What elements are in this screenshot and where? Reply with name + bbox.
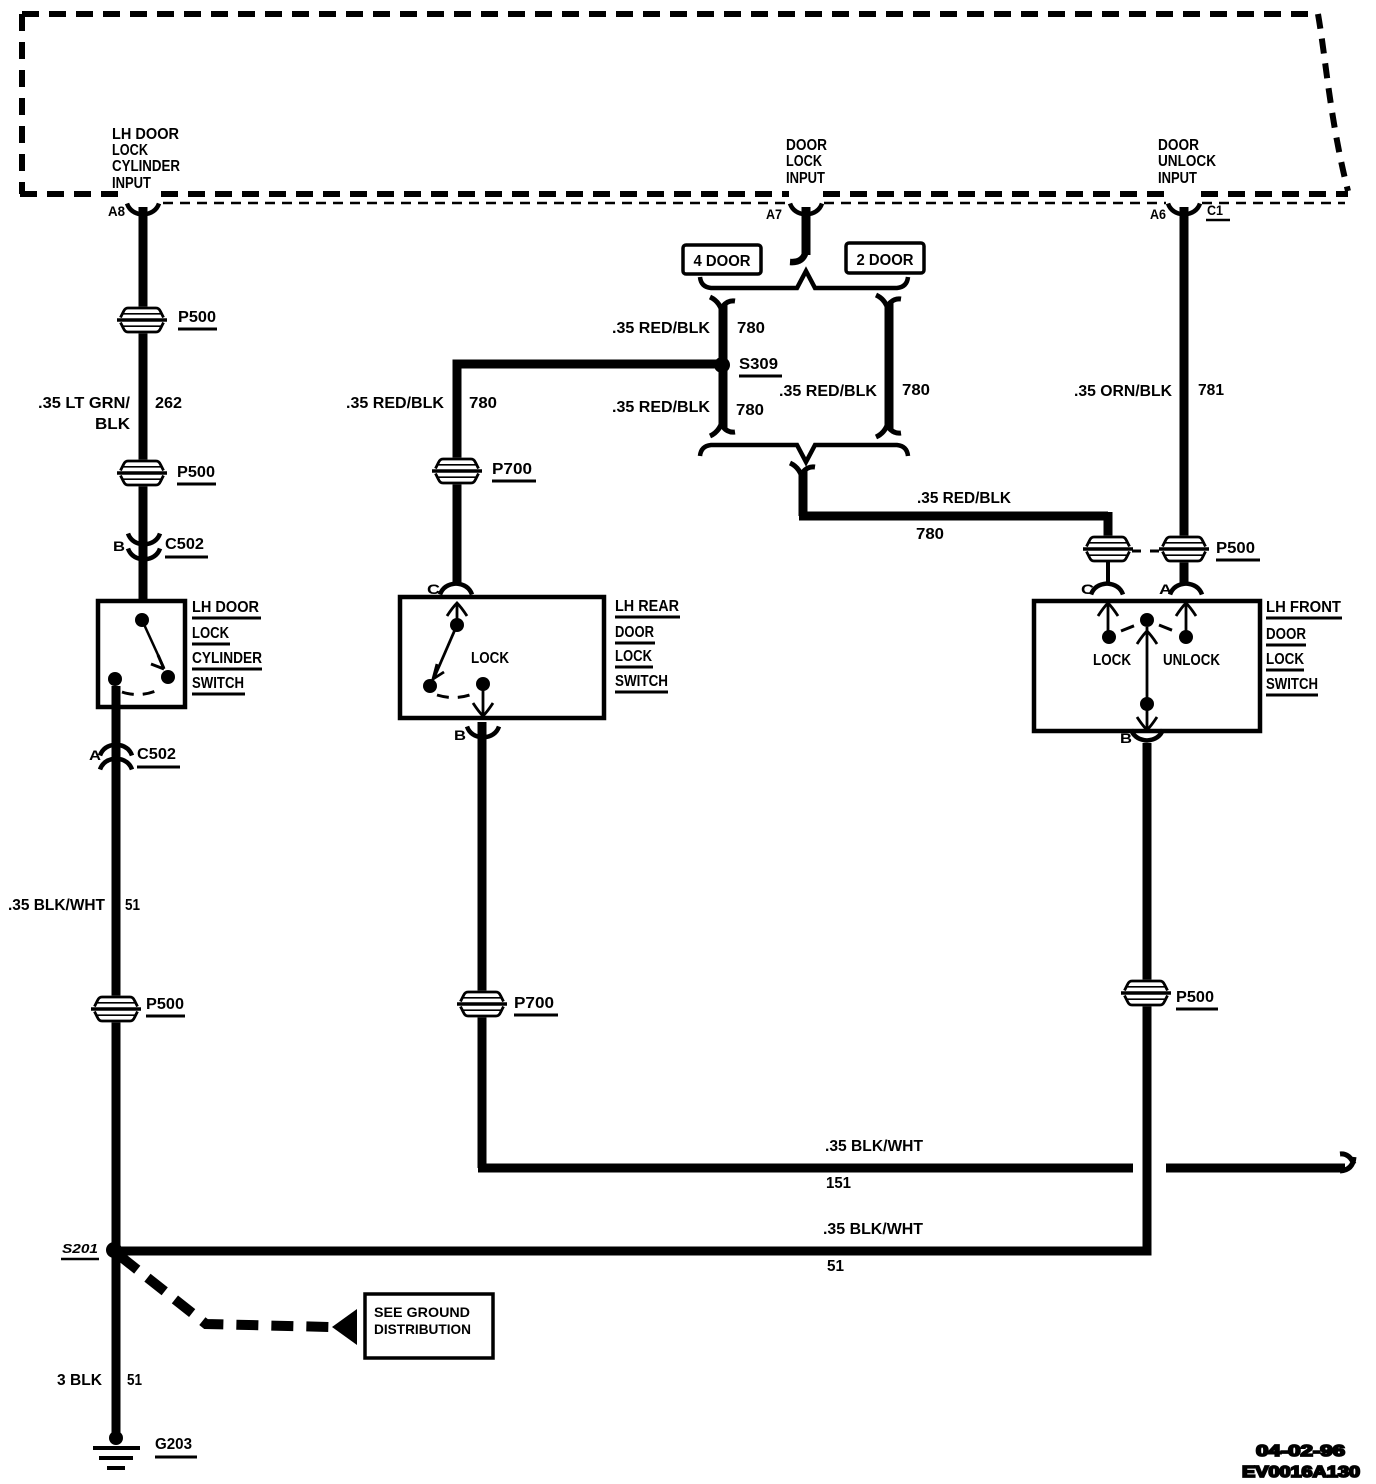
svg-text:DOOR: DOOR: [786, 137, 827, 154]
svg-text:SEE GROUND: SEE GROUND: [374, 1304, 470, 1320]
svg-text:3 BLK: 3 BLK: [57, 1372, 102, 1389]
svg-text:.35 RED/BLK: .35 RED/BLK: [612, 399, 710, 416]
svg-text:P500: P500: [146, 996, 184, 1013]
svg-text:780: 780: [469, 395, 497, 412]
svg-text:P700: P700: [514, 995, 554, 1012]
svg-text:.35 RED/BLK: .35 RED/BLK: [612, 320, 710, 337]
svg-text:LOCK: LOCK: [1093, 652, 1131, 669]
svg-text:.35 BLK/WHT: .35 BLK/WHT: [825, 1138, 923, 1155]
svg-text:04-02-96: 04-02-96: [1256, 1443, 1345, 1460]
svg-text:C: C: [1081, 581, 1094, 597]
svg-text:C502: C502: [165, 536, 204, 553]
svg-text:A: A: [1159, 581, 1172, 597]
svg-text:EV0016A130: EV0016A130: [1242, 1464, 1360, 1481]
svg-text:DOOR: DOOR: [1158, 137, 1199, 154]
svg-text:A8: A8: [108, 203, 125, 219]
svg-text:B: B: [113, 538, 125, 554]
svg-text:DISTRIBUTION: DISTRIBUTION: [374, 1321, 471, 1337]
svg-text:51: 51: [125, 897, 140, 914]
svg-text:.35 RED/BLK: .35 RED/BLK: [779, 383, 877, 400]
svg-text:BLK: BLK: [95, 416, 130, 433]
svg-text:B: B: [454, 727, 466, 743]
svg-text:INPUT: INPUT: [1158, 170, 1197, 187]
svg-text:LOCK: LOCK: [786, 153, 822, 170]
svg-text:780: 780: [737, 320, 765, 337]
svg-text:A7: A7: [766, 206, 782, 222]
svg-text:S201: S201: [62, 1242, 98, 1256]
svg-text:.35 BLK/WHT: .35 BLK/WHT: [8, 897, 105, 914]
svg-text:LH DOOR: LH DOOR: [192, 599, 259, 616]
svg-text:SWITCH: SWITCH: [1266, 676, 1318, 693]
svg-text:.35 BLK/WHT: .35 BLK/WHT: [823, 1221, 923, 1238]
svg-text:.35 RED/BLK: .35 RED/BLK: [346, 395, 444, 412]
svg-text:DOOR: DOOR: [615, 624, 654, 641]
svg-text:780: 780: [736, 402, 764, 419]
svg-text:LH REAR: LH REAR: [615, 598, 679, 615]
svg-text:780: 780: [916, 526, 944, 543]
svg-text:B: B: [1120, 730, 1132, 746]
svg-text:C1: C1: [1207, 202, 1223, 218]
svg-text:LH DOOR: LH DOOR: [112, 126, 179, 143]
svg-text:SWITCH: SWITCH: [615, 673, 668, 690]
svg-text:C502: C502: [137, 746, 176, 763]
svg-text:DOOR: DOOR: [1266, 626, 1306, 643]
svg-text:51: 51: [127, 1372, 142, 1389]
svg-text:SWITCH: SWITCH: [192, 675, 244, 692]
svg-text:780: 780: [902, 382, 930, 399]
svg-text:INPUT: INPUT: [112, 175, 151, 192]
svg-text:LOCK: LOCK: [615, 648, 652, 665]
svg-text:CYLINDER: CYLINDER: [112, 158, 180, 175]
svg-text:.35 RED/BLK: .35 RED/BLK: [917, 490, 1011, 507]
svg-text:2 DOOR: 2 DOOR: [857, 252, 914, 269]
svg-text:CYLINDER: CYLINDER: [192, 650, 262, 667]
svg-text:UNLOCK: UNLOCK: [1158, 153, 1216, 170]
svg-text:P700: P700: [492, 461, 532, 478]
svg-text:A6: A6: [1150, 206, 1166, 222]
svg-text:LOCK: LOCK: [192, 625, 229, 642]
svg-text:A: A: [89, 747, 101, 763]
svg-text:.35 ORN/BLK: .35 ORN/BLK: [1074, 383, 1172, 400]
svg-text:LOCK: LOCK: [1266, 651, 1304, 668]
svg-text:781: 781: [1198, 382, 1224, 399]
svg-text:G203: G203: [155, 1436, 192, 1453]
svg-text:P500: P500: [1216, 540, 1255, 557]
svg-text:LOCK: LOCK: [471, 650, 509, 667]
svg-text:LH FRONT: LH FRONT: [1266, 599, 1341, 616]
svg-text:P500: P500: [178, 309, 216, 326]
svg-text:C: C: [427, 581, 440, 597]
svg-text:INPUT: INPUT: [786, 170, 825, 187]
svg-text:151: 151: [826, 1175, 851, 1192]
svg-text:S309: S309: [739, 356, 778, 373]
svg-text:51: 51: [827, 1258, 844, 1275]
svg-text:P500: P500: [177, 464, 215, 481]
svg-text:.35 LT GRN/: .35 LT GRN/: [38, 395, 131, 412]
svg-text:P500: P500: [1176, 989, 1214, 1006]
svg-text:LOCK: LOCK: [112, 142, 148, 159]
svg-text:4 DOOR: 4 DOOR: [694, 253, 751, 270]
svg-text:UNLOCK: UNLOCK: [1163, 652, 1220, 669]
svg-text:262: 262: [155, 395, 182, 412]
